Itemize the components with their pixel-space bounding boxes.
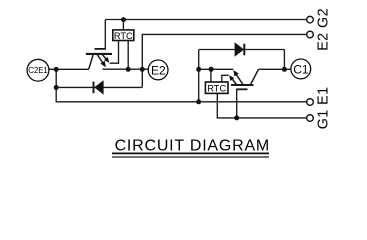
transistor Q1 channel bar (231, 84, 254, 86)
transistor Q1 gate bar (236, 88, 247, 90)
node C1 label circle (291, 59, 311, 79)
wire D1 anode vertical (198, 50, 200, 102)
terminal G1 (307, 115, 314, 122)
svg-text:RTC: RTC (207, 83, 226, 93)
junction dot RTC2 left / Q1 emitter node (209, 67, 214, 72)
junction dot D1 cathode / C1 (282, 67, 287, 72)
wire Q2 emitter leg (97, 54, 105, 66)
wire RTC1 top lead (122, 20, 124, 30)
diode D2 (freewheel, pointing left) (94, 80, 104, 94)
wire gate of Q2 vertical (104, 20, 106, 50)
wire Q1 collector leg (250, 69, 258, 85)
wire Q2 kelvin emitter leg (102, 54, 108, 61)
terminal E2 (307, 31, 314, 38)
arrow Q2 kelvin emitter (104, 57, 109, 63)
terminal G2 (307, 16, 314, 23)
wire C2E1 down and E1 bottom rail (56, 69, 306, 102)
svg-text:C1: C1 (293, 62, 309, 76)
svg-text:C2E1: C2E1 (28, 66, 48, 75)
terminal E1 (307, 99, 314, 106)
wire gate of Q1 vertical (236, 89, 238, 118)
svg-text:G1 E1: G1 E1 (316, 87, 332, 130)
svg-text:E2: E2 (151, 63, 166, 77)
wire D1 top branch (199, 49, 285, 51)
wire Q1 emitter node (199, 68, 234, 70)
junction dot D2 anode branch (54, 85, 59, 90)
wire G2 rail (105, 19, 306, 21)
junction dot G2 rail / RTC1 (121, 17, 126, 22)
wire diode D2 branch (56, 86, 142, 88)
wire RTC2 top-left lead (210, 69, 212, 82)
wire RTC2 bottom lead and G1 rail (217, 94, 306, 118)
junction dot Q1 emitter / D1 anode (196, 67, 201, 72)
junction dot E2 rail vertical / E2 node (140, 67, 145, 72)
node C2E1 label circle (27, 59, 49, 81)
wire RTC1 right lead (127, 41, 129, 70)
junction dot RTC1 right / E2 node (126, 67, 131, 72)
wire Q2 collector leg (89, 54, 94, 69)
wire Q1 kelvin leg (231, 78, 237, 85)
wire Q1 collector to C1 (259, 68, 292, 70)
arrow Q1 emitter (233, 70, 238, 76)
node E2 label circle (148, 60, 168, 80)
wire D1 cathode vertical (283, 50, 285, 70)
RTC block U1 (205, 82, 228, 93)
transistor Q2 gate bar (95, 48, 107, 50)
junction dot C2E1 node (54, 67, 59, 72)
svg-text:RTC: RTC (114, 31, 133, 41)
diode D1 (freewheel, pointing right) (235, 42, 245, 56)
arrow Q1 kelvin emitter (229, 75, 234, 81)
wire Q2 emitter node (103, 68, 149, 70)
svg-text:E2 G2: E2 G2 (316, 8, 332, 51)
arrow Q2 emitter (100, 61, 106, 67)
junction dot E1 rail (196, 99, 201, 104)
wire Q1 emitter leg (235, 72, 244, 85)
wire C2E1 to Q2 collector (49, 68, 89, 70)
title underline double (112, 153, 269, 155)
wire E2 rail with vertical to diode D2 (142, 34, 306, 87)
wire Q1 kelvin elbow to RTC2 (222, 75, 229, 82)
junction dot Q1 gate / G1 rail (234, 115, 239, 120)
RTC block U2 (113, 30, 134, 41)
svg-text:CIRCUIT DIAGRAM: CIRCUIT DIAGRAM (115, 138, 270, 155)
transistor Q2 channel bar (86, 53, 112, 55)
wire Q2 kelvin elbow to RTC1 (110, 41, 119, 64)
